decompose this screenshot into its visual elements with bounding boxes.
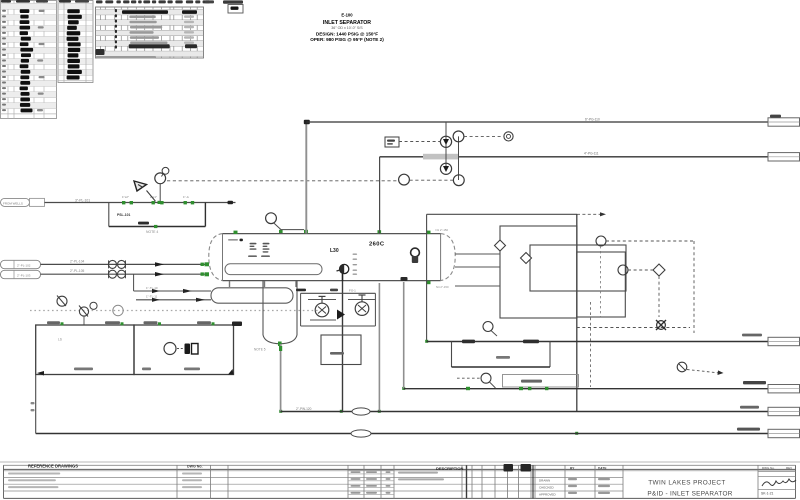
svg-text:DWG No.: DWG No. <box>762 466 775 470</box>
vessel tag 260C <box>369 242 385 248</box>
svg-text:FROM WELLS: FROM WELLS <box>3 202 23 206</box>
pressure instrument on manifold <box>155 167 169 204</box>
LV manifold below vessel <box>296 281 375 412</box>
svg-text:DWG No.: DWG No. <box>187 464 203 468</box>
blowdown line y388 <box>404 375 768 391</box>
green junction ticks bottom lines <box>279 340 578 435</box>
logic box B <box>500 226 577 318</box>
recycle line y341 <box>427 334 768 344</box>
svg-text:6"-PG-110: 6"-PG-110 <box>585 118 600 122</box>
notes text block top center <box>310 13 384 42</box>
svg-text:NOTE 5: NOTE 5 <box>254 348 266 352</box>
drain riser x379 <box>378 283 380 412</box>
svg-text:DATE: DATE <box>598 467 606 471</box>
svg-text:2"-PL-105: 2"-PL-105 <box>70 269 84 273</box>
angle valve symbol <box>656 320 666 330</box>
manifold gate valves (green) <box>122 195 194 205</box>
svg-text:E-100: E-100 <box>341 13 353 18</box>
vessel bottom nozzle stubs <box>230 281 297 287</box>
svg-text:OPER: 980 PSIG @ 95°F (NOTE 2): OPER: 980 PSIG @ 95°F (NOTE 2) <box>310 37 384 42</box>
gas connector right 1 <box>768 115 800 127</box>
svg-text:REV: REV <box>786 466 792 470</box>
svg-text:LS: LS <box>58 338 62 342</box>
water outlet line <box>281 406 768 415</box>
second gas riser <box>379 157 381 234</box>
svg-text:N4 2"-150: N4 2"-150 <box>436 285 449 289</box>
dashed box right edge <box>577 241 694 333</box>
logic box D <box>577 252 626 317</box>
LV bypass box <box>321 335 361 365</box>
svg-text:1"-TL-10: 1"-TL-10 <box>146 286 158 290</box>
vent to flare bubble <box>464 132 513 141</box>
diamond logic 2 <box>521 253 532 264</box>
table: valve list (second) <box>58 0 93 83</box>
logic box C <box>530 245 626 291</box>
PSV relief valve <box>134 181 156 201</box>
vessel figure mark <box>411 248 420 263</box>
svg-text:2"-PL-103: 2"-PL-103 <box>17 274 31 278</box>
heat trace dotted line <box>30 305 318 315</box>
diamond logic 1 <box>495 240 506 251</box>
svg-text:CHECKED: CHECKED <box>539 485 555 489</box>
svg-text:1"x2": 1"x2" <box>122 195 129 199</box>
level taps from vessel to logic <box>455 254 500 286</box>
boot drain line <box>279 344 282 412</box>
sheet reference box top <box>205 0 243 13</box>
vessel tag L30 <box>330 248 339 254</box>
svg-text:2"-PW-120: 2"-PW-120 <box>296 407 312 411</box>
svg-text:1"-A: 1"-A <box>183 195 189 199</box>
nozzle schedule small text <box>353 228 449 289</box>
drain valve circle with slash <box>677 362 723 375</box>
recycle connector right <box>768 337 800 345</box>
vessel top nozzle marks <box>234 230 431 284</box>
inlet line 3 <box>1 269 206 279</box>
water connector right <box>768 407 800 415</box>
PI gauge circle <box>399 174 453 185</box>
drain instruments with handles <box>57 296 97 326</box>
svg-text:FO-1: FO-1 <box>349 289 356 293</box>
svg-text:TWIN LAKES PROJECT: TWIN LAKES PROJECT <box>648 480 726 487</box>
svg-text:PSL-101: PSL-101 <box>117 213 130 217</box>
svg-text:2"-PL-102: 2"-PL-102 <box>17 264 31 268</box>
dashed vertical x600 inside logic box <box>600 246 602 317</box>
svg-text:4"-PG-111: 4"-PG-111 <box>584 152 599 156</box>
blowdown connector right <box>768 385 800 393</box>
inlet distributor internal <box>225 264 322 275</box>
vessel internal level marks <box>228 239 270 257</box>
inlet line 1 from wells <box>1 198 236 206</box>
skid box A <box>36 325 134 375</box>
vessel boot <box>254 281 297 352</box>
shutdown logic outer box <box>427 212 606 341</box>
svg-text:REFERENCE DRAWINGS: REFERENCE DRAWINGS <box>28 463 78 468</box>
svg-text:36" OD x 10'-0" S/S: 36" OD x 10'-0" S/S <box>331 26 363 30</box>
svg-text:1"-TL-11: 1"-TL-11 <box>146 295 158 299</box>
reference drawing rows left <box>8 473 202 489</box>
diamond right <box>653 264 665 317</box>
inlet manifold bypass loop <box>109 203 206 235</box>
vessel inlet nozzles (green) <box>205 262 210 276</box>
svg-text:3"-PL-101: 3"-PL-101 <box>75 198 90 202</box>
hand switch box <box>385 137 441 147</box>
vessel V-100 inlet separator <box>209 234 455 281</box>
gas line 2 east <box>380 152 768 160</box>
svg-text:DESCRIPTION: DESCRIPTION <box>436 466 463 471</box>
skid labels on top line <box>47 321 242 326</box>
dashed vertical x590 <box>590 302 592 387</box>
control valve station <box>440 122 464 186</box>
svg-text:2"-PL-104: 2"-PL-104 <box>70 259 84 263</box>
LV valve actuator stems <box>319 295 366 303</box>
recycle loop below <box>452 342 551 368</box>
PG instrument on gas nozzle <box>266 213 304 230</box>
gas line to sales <box>306 118 768 122</box>
oil connector right <box>768 429 800 437</box>
test line lower <box>136 295 211 302</box>
main SDV vertical line <box>576 214 578 411</box>
XI indicator in box B <box>164 343 198 355</box>
test line upper <box>134 286 211 293</box>
title block frame <box>0 462 800 498</box>
instrument signal dashed to PI <box>167 180 399 182</box>
drain riser x404 <box>401 277 408 389</box>
level gauge valve at vessel outlet nozzle <box>337 264 349 281</box>
svg-text:N1 2"-150: N1 2"-150 <box>436 228 449 232</box>
drop from line3 to test lines <box>133 274 135 291</box>
skid box B <box>37 325 234 376</box>
svg-text:260C: 260C <box>369 242 385 248</box>
svg-text:L30: L30 <box>330 248 339 254</box>
inlet line 2 <box>1 259 206 268</box>
bubble on dashed top right <box>596 236 694 246</box>
oil outlet line <box>31 375 769 438</box>
svg-text:APPROVED: APPROVED <box>539 492 557 496</box>
test separator capsule <box>211 288 293 303</box>
LIC bubble near loop <box>483 322 497 337</box>
table: line list (left) <box>1 0 57 119</box>
PIT bubble on blowdown <box>457 373 496 388</box>
bubble mid <box>618 265 653 275</box>
svg-text:NOTE 4: NOTE 4 <box>146 230 158 234</box>
svg-text:SK-1-21: SK-1-21 <box>761 491 774 495</box>
gas connector right 2 <box>768 153 800 161</box>
svg-text:P&ID - INLET SEPARATOR: P&ID - INLET SEPARATOR <box>647 491 732 498</box>
table: equipment grid (third) <box>96 0 210 58</box>
svg-text:DESIGN: 1440 PSIG @ 150°F: DESIGN: 1440 PSIG @ 150°F <box>316 32 378 37</box>
svg-text:DRAWN: DRAWN <box>539 479 550 483</box>
gas outlet riser <box>304 120 310 234</box>
title block texts <box>28 463 796 497</box>
